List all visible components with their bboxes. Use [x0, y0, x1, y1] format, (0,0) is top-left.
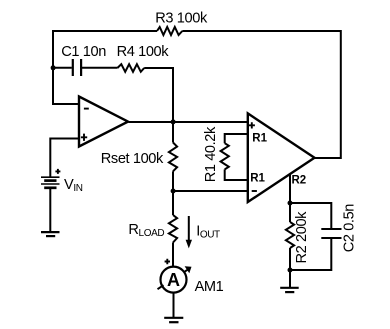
svg-text:R3 100k: R3 100k [155, 10, 208, 26]
svg-text:Rset 100k: Rset 100k [101, 151, 164, 167]
svg-text:R4 100k: R4 100k [117, 44, 170, 60]
svg-text:C2 0.5n: C2 0.5n [342, 204, 358, 253]
svg-text:C1 10n: C1 10n [61, 44, 106, 60]
svg-text:R1 40.2k: R1 40.2k [203, 126, 219, 182]
svg-text:R1: R1 [250, 173, 265, 185]
svg-text:R1: R1 [252, 132, 267, 144]
svg-text:R2: R2 [292, 175, 307, 187]
svg-text:AM1: AM1 [195, 279, 224, 295]
svg-text:A: A [167, 270, 180, 290]
svg-text:R2 200k: R2 200k [294, 211, 310, 264]
